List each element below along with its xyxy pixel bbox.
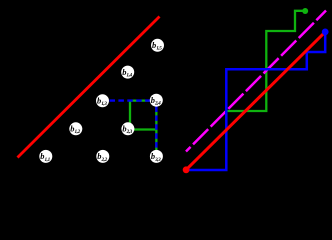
magenta dashed diagonal xyxy=(186,11,326,152)
node b23 xyxy=(121,122,134,135)
green path: left vertical of square xyxy=(129,101,131,130)
blue dashed path b24->b33 xyxy=(155,101,157,157)
node b22 xyxy=(96,150,109,163)
green path: right vertical b24->b33 (under blue dashes) xyxy=(155,101,157,157)
blue dashed path b13->b24 xyxy=(103,99,157,101)
node b15 xyxy=(151,39,164,52)
green path: top horizontal (under blue dashes) xyxy=(129,99,157,101)
green dot xyxy=(302,8,308,14)
blue dot xyxy=(322,29,329,36)
node b11 xyxy=(39,150,52,163)
red diagonal line (right diagram) xyxy=(186,32,325,170)
node b33 xyxy=(150,150,163,163)
green staircase path xyxy=(227,11,305,111)
red dot xyxy=(183,166,190,173)
green path: bottom horizontal of square xyxy=(129,128,157,130)
node b13 xyxy=(96,94,109,107)
red diagonal line (left diagram) xyxy=(18,17,160,158)
blue staircase path xyxy=(186,32,325,170)
node b12 xyxy=(69,122,82,135)
node b14 xyxy=(121,66,134,79)
node b24 xyxy=(150,94,163,107)
